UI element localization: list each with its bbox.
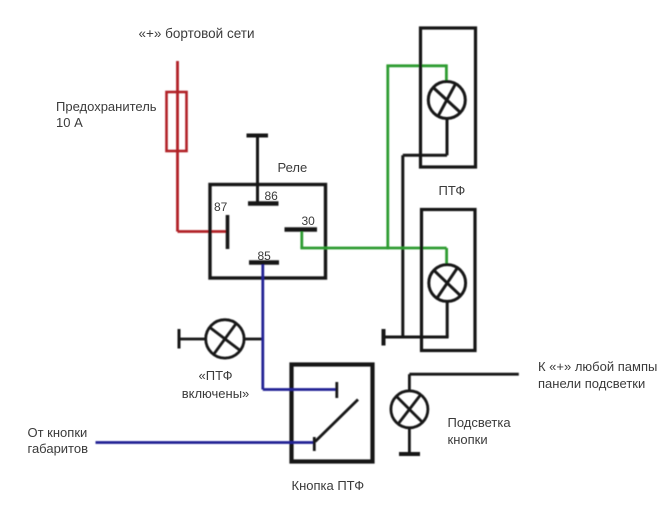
- ground bar for illumination lamp: [399, 452, 420, 456]
- node label: «+» бортовой сети: [139, 26, 255, 42]
- ground terminal bar for lamps: [382, 329, 386, 346]
- wire: green horizontal bus to lamps: [300, 247, 446, 250]
- label: К «+» любой пампы панели подсветки: [538, 358, 657, 392]
- pin label 85: [258, 248, 271, 264]
- fog lamp housing box 1: [421, 28, 476, 167]
- indicator lamp HL1 «ПТФ включены» terminal bar: [178, 329, 181, 349]
- lamp EL1 (ПТФ) circle with X: [428, 82, 465, 119]
- switch top contact bar: [335, 382, 338, 398]
- fog lamp housing box 2: [422, 210, 476, 351]
- pin label 87: [214, 199, 227, 215]
- wire: lamp 1 bottom lead: [446, 119, 449, 156]
- wire: common return vertical to ground: [401, 155, 404, 337]
- switch SA1 box (Кнопка ПТФ): [292, 365, 373, 462]
- wire: blue horizontal into switch top contact: [263, 388, 336, 391]
- label: От кнопки габаритов: [28, 425, 89, 456]
- component label: Реле: [278, 160, 308, 176]
- label: «ПТФ включены»: [182, 367, 250, 403]
- wire: panel illumination feed horizontal: [409, 373, 518, 376]
- indicator lamp HL1 circle with X: [206, 320, 244, 358]
- wire: blue from parking-light button (От кнопки габаритов): [96, 441, 315, 444]
- value label: Предохранитель 10 А: [56, 99, 157, 131]
- component label: Кнопка ПТФ: [292, 478, 365, 494]
- wire: lamp 1 return horizontal: [403, 154, 447, 157]
- lamp EL2 (ПТФ) circle with X: [429, 265, 466, 302]
- component label: ПТФ: [439, 183, 466, 199]
- wire: lamp 2 bottom lead: [446, 301, 449, 337]
- wire: green lamp 1 top lead: [445, 64, 448, 82]
- wire: green horizontal into lamp 1: [386, 64, 446, 67]
- wire: red +12V feed vertical from «+» бортовой сети to fuse: [176, 61, 179, 232]
- label: Подсветка кнопки: [448, 414, 511, 449]
- illumination lamp HL2 (Подсветка кнопки) circle with X: [391, 391, 428, 428]
- wire: red horizontal from fuse bottom to relay pin 87: [178, 230, 227, 233]
- wire: pin 86 vertical lead: [256, 136, 259, 203]
- pin 86 contact bar: [248, 201, 279, 205]
- wire: green from pin 30 down: [300, 232, 303, 249]
- wire: return horizontal to body ground: [384, 336, 449, 339]
- switch lever: [315, 400, 358, 442]
- wire: illumination lamp top lead: [408, 374, 411, 391]
- pin 30 contact bar: [285, 227, 318, 231]
- wire: blue from relay pin 85 down: [261, 265, 264, 390]
- fuse F1 10A rectangle: [167, 92, 187, 151]
- wire: illumination lamp bottom lead: [408, 428, 411, 454]
- wire: indicator right lead to blue wire: [244, 338, 263, 341]
- wire: green branch up to fog lamp 1: [386, 66, 389, 250]
- pin 87 contact bar: [226, 215, 230, 249]
- wire: green lamp 2 top lead: [445, 248, 448, 266]
- pin label 30: [302, 213, 315, 229]
- pin 85 contact bar: [249, 260, 279, 264]
- pin 86 top terminal T-bar: [247, 134, 269, 138]
- wire: indicator left lead: [179, 338, 206, 341]
- relay K1 box: [210, 185, 326, 279]
- switch bottom contact bar: [313, 437, 316, 451]
- pin label 86: [265, 188, 278, 204]
